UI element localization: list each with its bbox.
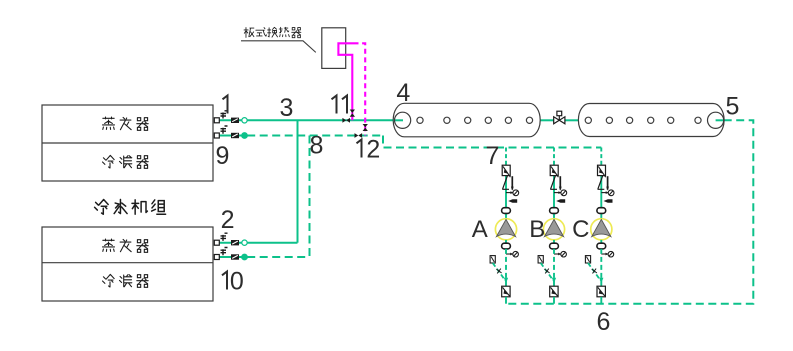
svg-text:5: 5 (726, 93, 740, 121)
node label 11 (332, 96, 337, 114)
chiller unit 1 box (42, 105, 213, 181)
wire: branch C discharge dashed (600, 249, 602, 286)
pressure gauge (discharge) branch C (601, 251, 613, 257)
svg-text:C: C (572, 216, 589, 243)
wire: header 5 outlet loop (dashed) right and down to pump suction main (506, 120, 753, 303)
label plate heat exchanger 板式换热器 (244, 27, 301, 37)
wire: branch A drop from return main (505, 148, 507, 166)
svg-text:7: 7 (485, 142, 499, 170)
wire: chilled water supply main (solid) y=120.3 (247, 119, 403, 121)
svg-text:0: 0 (230, 268, 244, 296)
label chiller unit 冷水机组 (95, 200, 166, 215)
valve 12 on magenta return (vertical bowtie) (363, 124, 368, 131)
isolating valve (boxed) branch A (502, 286, 510, 297)
pressure gauge (suction) branch A (506, 190, 519, 196)
svg-text:B: B (529, 216, 545, 243)
wire: supply header 4 to shutoff valve (540, 119, 554, 121)
isolating valve (boxed) branch C (597, 286, 605, 297)
svg-text:4: 4 (396, 79, 410, 107)
pressure gauge (discharge) branch A (506, 251, 518, 257)
svg-text:8: 8 (310, 132, 324, 160)
chiller unit 2 box (42, 227, 213, 301)
pressure gauge (suction) branch C (601, 190, 614, 196)
motorized valve (boxed) branch C (598, 165, 606, 177)
chiller 2 return connection fittings (pipe 10) (214, 248, 247, 260)
check valve bypass branch C (585, 256, 603, 284)
wire: branch B discharge dashed (553, 249, 555, 286)
chiller 2 supply connection fittings (pipe 2) (214, 233, 247, 245)
leader line for plate heat exchanger label (241, 41, 316, 53)
chiller 1 return connection fittings (pipe 9) (214, 126, 247, 138)
wire: branch C to pump suction main (600, 297, 602, 304)
flow arrow branch C (604, 199, 613, 202)
flexible joint (suction) branch A (502, 208, 511, 214)
collector header 4 (393, 103, 540, 137)
wire: return main step down to header level (383, 136, 601, 148)
valve on supply main near node 11 (black bowtie) (342, 118, 350, 123)
wire: chilled water return main (dashed) y=135.5 (247, 135, 383, 137)
svg-text:3: 3 (280, 94, 294, 122)
flexible joint (suction) branch B (550, 208, 559, 214)
pump branch B (538, 148, 567, 304)
flow arrow branch B (556, 199, 565, 202)
wire: branch A suction segment (505, 176, 507, 219)
wire: branch B discharge segment (553, 240, 555, 249)
svg-text:6: 6 (597, 308, 611, 336)
valve 11 on magenta supply (vertical bowtie) (350, 110, 355, 117)
label evaporator (chiller 2) (103, 239, 149, 252)
wire: branch A to pump suction main (505, 297, 507, 304)
wire: branch A discharge segment (505, 240, 507, 249)
valve on return main near node 12 (black bowtie) (355, 133, 363, 138)
wire: riser from chiller 2 return (dashed) x=309.5 (309, 136, 311, 258)
pump B (circle + impeller triangle) (543, 219, 564, 240)
collector header 5 (578, 104, 724, 137)
flow arrow branch A (508, 199, 517, 202)
wire: branch B to pump suction main (553, 297, 555, 304)
check valve bypass branch B (538, 256, 556, 284)
wire: branch C drop from return main (600, 148, 602, 166)
node label 1 (223, 96, 228, 114)
isolating valve (boxed) branch B (550, 286, 558, 297)
magenta supply pipe to plate heat exchanger (solid) (338, 43, 353, 120)
pump A (circle + impeller triangle) (495, 219, 516, 240)
node label 12 (357, 140, 362, 158)
svg-text:A: A (472, 216, 488, 243)
pressure gauge (discharge) branch B (554, 251, 566, 257)
pump branch C (585, 148, 614, 304)
motorized valve (boxed) branch B (550, 165, 558, 177)
pressure gauge (suction) branch B (554, 190, 567, 196)
wire: chiller 2 return pipe (dashed) y=257 (247, 256, 309, 258)
check valve bypass branch A (490, 256, 508, 284)
wire: chiller 2 supply pipe (solid) y=242.7 (247, 242, 297, 244)
wire: riser from chiller 2 supply (solid) x=297.5 (297, 120, 299, 242)
flexible joint (discharge) branch B (550, 243, 559, 249)
wire: branch A discharge dashed (505, 249, 507, 286)
plate heat exchanger box (322, 28, 346, 69)
chiller 1 supply connection fittings (pipe 1) (214, 111, 247, 123)
label condenser (chiller 2) (103, 274, 149, 287)
regulating valve branch C (598, 176, 610, 191)
wire: branch B drop from return main (553, 148, 555, 166)
shutoff valve between headers (554, 111, 565, 124)
regulating valve branch B (550, 176, 562, 191)
magenta return pipe from plate heat exchanger (dashed) (354, 43, 366, 135)
pump branch A (490, 148, 519, 304)
flexible joint (discharge) branch A (502, 243, 511, 249)
flexible joint (suction) branch C (597, 208, 606, 214)
label evaporator (chiller 1) (103, 117, 149, 130)
pump C (circle + impeller triangle) (591, 219, 612, 240)
label condenser (chiller 1) (103, 155, 149, 168)
svg-text:2: 2 (221, 206, 235, 234)
svg-text:2: 2 (366, 136, 380, 164)
wire: branch C suction segment (600, 176, 602, 219)
svg-text:9: 9 (216, 142, 230, 170)
wire: branch B suction segment (553, 176, 555, 219)
wire: branch C discharge segment (600, 240, 602, 249)
regulating valve branch A (502, 176, 514, 191)
wire: shutoff valve to header 5 (565, 119, 579, 121)
motorized valve (boxed) branch A (502, 165, 510, 177)
node label 10 (222, 272, 227, 290)
flexible joint (discharge) branch C (597, 243, 606, 249)
